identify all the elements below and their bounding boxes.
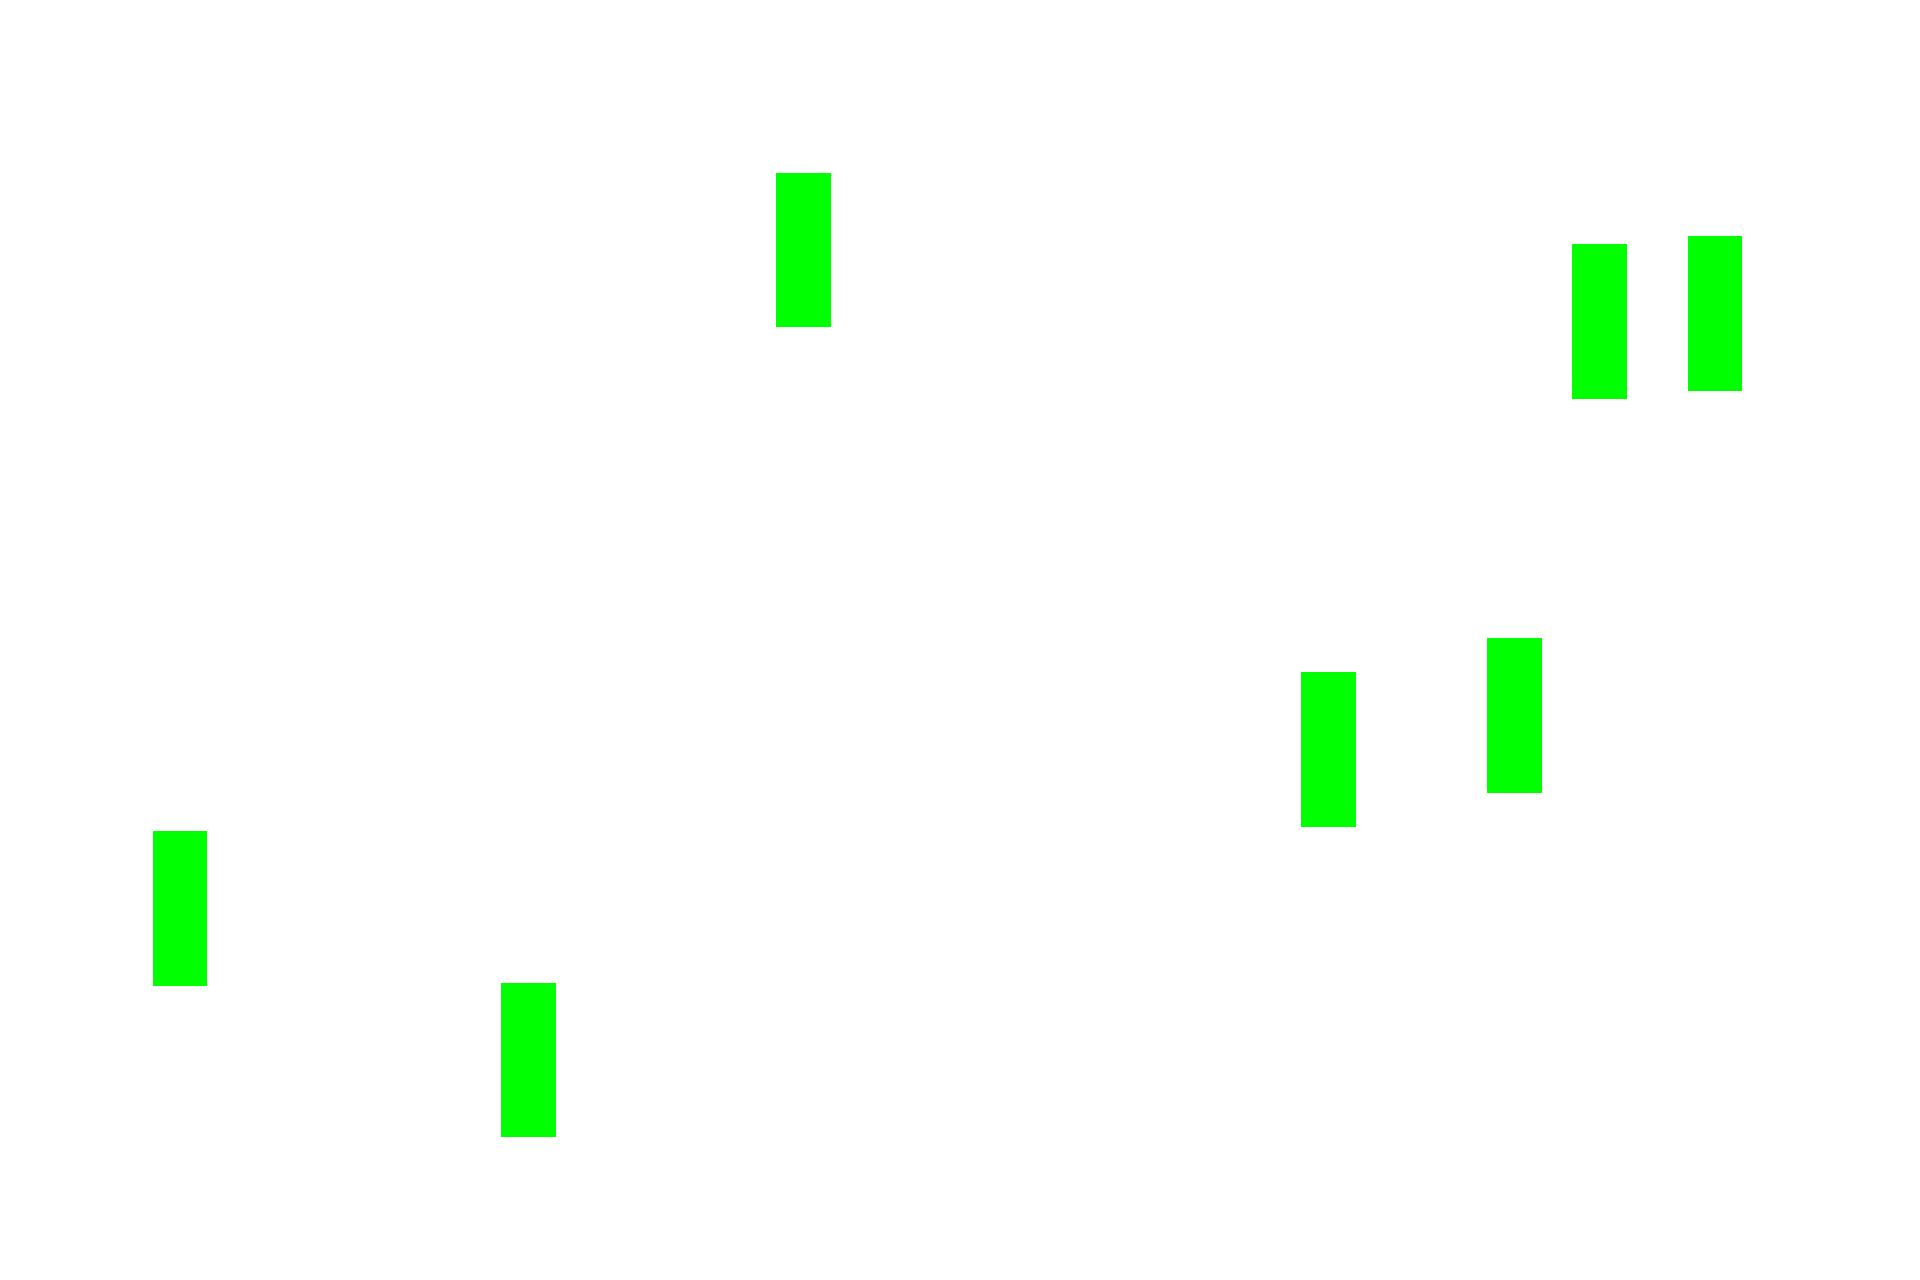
green bar 7 (bottom center-left)	[501, 983, 556, 1137]
green bar 5 (middle right, upper)	[1487, 638, 1542, 793]
green bar 4 (middle right, lower)	[1301, 672, 1356, 827]
green bar 1 (top center)	[776, 173, 831, 327]
green bar 6 (lower left)	[153, 831, 207, 986]
green bar 2 (upper right, left of pair)	[1572, 244, 1627, 399]
green bar 3 (upper right, right of pair)	[1688, 236, 1742, 391]
